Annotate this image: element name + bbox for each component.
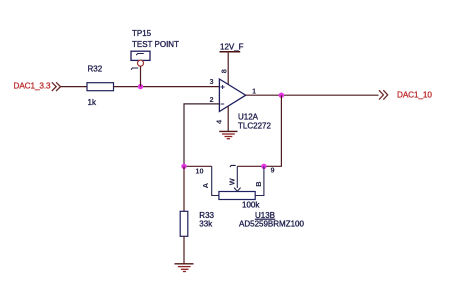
svg-text:R32: R32 [88, 64, 103, 73]
svg-text:U12A: U12A [238, 112, 259, 121]
junction node output [279, 93, 284, 98]
wire power stem to pin 8 [227, 53, 229, 85]
svg-text:B: B [254, 181, 263, 186]
resistor R32 [87, 64, 114, 106]
wire junction to R33 [183, 166, 185, 211]
junction node left [181, 164, 186, 169]
svg-text:33k: 33k [199, 219, 213, 228]
pin number 1 (wiper, rotated) [230, 165, 236, 167]
ground (op-amp) [219, 131, 237, 138]
svg-text:A: A [201, 182, 210, 188]
test point TP15 [131, 29, 179, 66]
op-amp U12A [219, 79, 271, 130]
pin number 1 (test point, rotated) [131, 68, 138, 70]
potentiometer U13B [212, 166, 264, 209]
resistor R33 [180, 211, 214, 237]
port DAC1_10 [379, 90, 432, 99]
svg-text:1k: 1k [88, 98, 97, 107]
ground (R33) [175, 264, 194, 272]
wire junction to pin A [184, 165, 212, 167]
wire input left [61, 86, 88, 88]
wire R33 to ground [183, 236, 185, 263]
svg-text:3: 3 [210, 77, 214, 86]
svg-text:100k: 100k [242, 200, 260, 209]
wire R32 to op-amp pin 3 [114, 86, 220, 88]
svg-text:10: 10 [195, 166, 203, 175]
svg-text:W: W [228, 178, 237, 185]
wire op-amp output [246, 94, 379, 96]
svg-text:2: 2 [210, 95, 214, 104]
svg-text:DAC1_10: DAC1_10 [397, 91, 432, 100]
wire op-amp pin 2 [184, 104, 219, 166]
svg-text:DAC1_3.3: DAC1_3.3 [14, 82, 52, 91]
svg-text:8: 8 [220, 69, 229, 73]
svg-text:TP15: TP15 [132, 29, 152, 38]
wire feedback vertical [280, 95, 282, 166]
port DAC1_3.3 [14, 82, 61, 91]
junction node pin B [261, 164, 266, 169]
svg-text:TEST POINT: TEST POINT [132, 40, 179, 49]
svg-text:12V_F: 12V_F [220, 43, 244, 52]
svg-text:TLC2272: TLC2272 [238, 121, 271, 130]
svg-text:1: 1 [252, 87, 256, 96]
wire TP15 stem [140, 66, 142, 86]
svg-text:9: 9 [271, 166, 275, 175]
junction node at TP15 [138, 84, 143, 89]
wire op-amp pin 4 to ground [227, 106, 229, 131]
wire pin W to feedback corner [237, 165, 282, 167]
power 12V_F [220, 43, 244, 52]
svg-text:AD5259BRMZ100: AD5259BRMZ100 [239, 219, 304, 228]
